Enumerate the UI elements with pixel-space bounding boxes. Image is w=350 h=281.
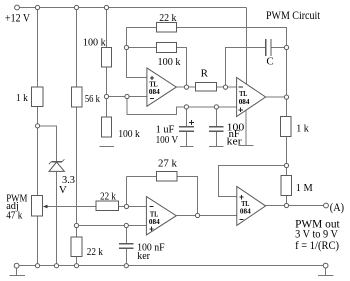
svg-text:100 V: 100 V [156,134,179,146]
svg-text:22 k: 22 k [100,190,116,202]
resistor 22k top [156,22,176,32]
wire zener anode to bottom rail [56,171,58,265]
wire R right to U2 minus input [217,86,237,88]
wire 1uF stem bottom to ground [185,132,187,146]
wire U3 output to U4 minus [176,215,237,217]
svg-text:22 k: 22 k [159,12,177,24]
wire U2 output [266,96,287,98]
resistor 22k mid [96,201,118,210]
svg-text:22 k: 22 k [87,246,104,258]
wire col2 56k bottom to 22k vertical [76,107,78,237]
svg-text:084: 084 [240,207,251,216]
wire 100k horiz right feedback down to U1 output [177,48,187,88]
zener diode 3.3V [51,161,62,163]
junction 1uF top [184,105,188,109]
wire 100k horiz left [127,47,157,49]
junction 100k divider node [104,94,108,98]
wire U3 plus input line [77,225,147,227]
wire 22k top right to output column [177,28,287,117]
junction rail zener [54,264,58,268]
junction rail 100nF2 [124,264,128,268]
resistor 1M [281,176,292,196]
wire C right to output column [271,47,287,49]
junction U1 minus node [125,94,129,98]
wire 100nF2 stem top [125,226,127,244]
wire output column 1k to 1M [286,137,288,176]
wire col1 vertical from rail to 1k [37,8,39,88]
capacitor 1uF polarity plus [189,121,194,123]
wire C left to U2 inverting node [226,48,266,88]
wire U4 output to terminal A [266,205,324,207]
wire 27k left [127,176,157,178]
wire col3 vertical from rail to 100k [106,8,108,48]
junction 22k/100k node [124,45,128,49]
resistor 27k [156,171,177,181]
resistor 100k lower vertical [102,117,112,137]
wire top +12V rail [20,7,247,9]
junction 1k/zener/pot node [35,124,39,128]
svg-text:PWM Circuit: PWM Circuit [266,8,321,22]
svg-text:ker: ker [137,250,150,262]
resistor 56k [71,87,82,107]
svg-text:47 k: 47 k [6,210,23,222]
ground below 100k divider [100,145,115,147]
junction C right [284,45,288,49]
op-amp U1 TL084 [147,68,176,106]
junction rail 22k [74,264,78,268]
wire pot bottom to rail [37,216,39,266]
svg-text:084: 084 [149,217,160,226]
ground below 1uF [180,145,194,147]
wire 1uF stem top [185,107,187,127]
svg-text:(A): (A) [330,200,344,214]
svg-text:100 k: 100 k [118,128,140,140]
ground bottom left [16,268,18,275]
wiper arrowhead [43,205,48,209]
capacitor 100nF plates [209,126,223,128]
svg-text:1 k: 1 k [296,123,309,135]
wire col2 vertical from rail to 56k [76,8,78,87]
svg-text:084: 084 [149,87,160,96]
wire 100nF2 stem bottom [125,249,127,266]
svg-text:f = 1/(RC): f = 1/(RC) [295,238,339,252]
svg-text:ker: ker [227,135,242,147]
resistor 1k right [281,117,292,137]
op-amp U4 TL084 [237,187,266,226]
wire col3 between 100k resistors [106,67,108,117]
svg-text:084: 084 [239,97,250,106]
resistor 100k upper vertical [102,48,112,67]
wire 100nF stem top [215,107,217,127]
junction rail col2 [74,5,78,9]
wire 27k feedback left vertical [126,177,128,207]
wire bottom ground rail [19,265,323,267]
junction U1 output [184,85,188,89]
junction 56k/22k divider [74,223,78,227]
wire U1 output to R [176,86,195,88]
op-amp U3 TL084 [146,197,176,235]
capacitor C plates [265,39,267,56]
wire feedback jog from U1 minus node to U2 plus line [127,97,237,115]
svg-text:C: C [266,56,273,68]
junction U3 output [195,213,199,217]
wire V+ power pin of U2 from rail down to triangle [246,8,248,85]
wire 1k node to zener [38,126,57,162]
resistor 22k vertical [71,237,82,257]
svg-text:100 k: 100 k [83,37,106,49]
resistor 1k left [32,87,43,107]
junction R right / U2 minus [223,85,227,89]
potentiometer 47k body [32,195,43,216]
wire U1 minus input line [107,96,147,98]
op-amp U2 TL084 [237,78,266,117]
resistor R [196,83,217,92]
wire 1M bottom to output line [286,196,288,206]
wire pot wiper to 22k [45,206,96,208]
svg-text:1 k: 1 k [16,92,28,104]
junction 22k/27k/U3 minus [124,204,128,208]
svg-text:56 k: 56 k [85,93,100,105]
resistor 100k horizontal [157,42,177,52]
terminal ground right [323,263,328,268]
terminal ground left [14,263,19,268]
ground below 100nF [209,145,224,147]
wire U4 plus feedback loop [218,166,286,197]
junction 100nF2 top [124,223,128,227]
svg-text:V: V [59,184,67,196]
ground below U2 V- pin [239,145,254,147]
junction rail col3 [104,5,108,9]
junction 100nF top [214,105,218,109]
capacitor 100nF ker plates (bottom) [119,243,134,245]
junction rail pot [35,264,39,268]
wire 22k top left to col4 [127,28,157,78]
wire 22k vertical bottom to rail [76,257,78,266]
junction U4 output [284,203,288,207]
svg-text:1 M: 1 M [296,182,313,194]
svg-text:27 k: 27 k [158,157,177,169]
capacitor 1uF plates [179,126,194,128]
svg-text:100 k: 100 k [158,56,181,68]
terminal A output [324,203,329,208]
svg-text:+12 V: +12 V [5,10,30,24]
wire 22k mid right to U3 minus [118,206,146,208]
wire 27k right down to U3 output [177,177,198,216]
svg-text:R: R [201,67,209,79]
junction U2 output [284,95,288,99]
wire 100nF stem bottom to ground [215,132,217,146]
wire col1 1k bottom to pot [37,107,39,195]
terminal +12V [15,5,20,10]
wire V- power pin of U2 down to ground [245,110,247,145]
ground bottom right [325,268,327,276]
junction 1k/1M node [284,163,288,167]
junction rail col1 [35,5,39,9]
